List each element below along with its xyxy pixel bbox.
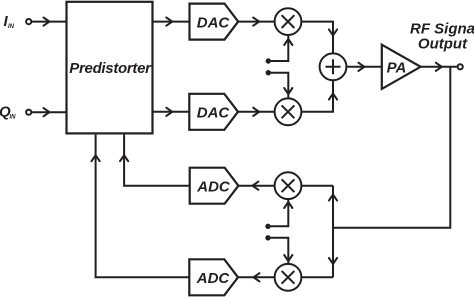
wire mixer2 to summer (301, 80, 337, 112)
wire mixer4 to ADC2 (238, 273, 275, 281)
mixer3 (feedback down-conversion top) (275, 172, 302, 199)
node Q_IN label (0, 104, 16, 121)
input terminal I_IN (26, 19, 31, 24)
svg-text:Output: Output (418, 35, 468, 52)
svg-text:PA: PA (387, 60, 407, 77)
predistorter block (67, 2, 153, 134)
wire I_IN to predistorter (32, 18, 67, 26)
wire mixer3 to ADC1 (238, 182, 274, 190)
input terminal Q_IN (26, 110, 31, 115)
svg-text:IN: IN (10, 115, 17, 121)
LO dot 4 (265, 235, 270, 240)
mixer4 (feedback down-conversion bottom) (275, 264, 302, 291)
LO dot 1 (266, 58, 271, 63)
wire splitter to feedback mixer3 (301, 185, 333, 187)
wire summer to PA (346, 63, 381, 71)
svg-text:ADC: ADC (196, 179, 231, 196)
wire DAC1 to mixer1 (238, 18, 274, 26)
PA amplifier (382, 45, 421, 89)
svg-text:Predistorter: Predistorter (69, 60, 152, 77)
RF Signal Output label (410, 20, 474, 52)
wire predistorter to DAC2 (153, 108, 190, 116)
wire ADC1 to predistorter (120, 135, 190, 186)
svg-text:IN: IN (8, 24, 15, 30)
LO dot 3 (265, 224, 270, 229)
svg-text:DAC: DAC (197, 14, 231, 31)
output terminal (458, 64, 463, 69)
wire splitter to feedback mixer4 (301, 276, 333, 278)
DAC1 converter (190, 4, 239, 40)
node I_IN label (4, 13, 15, 30)
svg-text:ADC: ADC (196, 270, 231, 287)
wire LO3 to mixer3 (268, 199, 292, 226)
wire LO1 to mixer1 (268, 35, 292, 61)
wire LO4 to mixer4 (268, 238, 292, 264)
wire LO2 to mixer2 (268, 73, 292, 99)
wire predistorter to DAC1 (153, 18, 190, 26)
wire Q_IN to predistorter (32, 108, 67, 116)
svg-text:DAC: DAC (197, 105, 231, 122)
wire PA to output terminal (421, 63, 458, 71)
wire mixer1 to summer (301, 22, 337, 54)
LO dot 2 (266, 70, 271, 75)
feedback tap wire (333, 67, 450, 228)
mixer2 (Q up-conversion) (275, 98, 302, 125)
wire DAC2 to mixer2 (238, 108, 275, 116)
summer (320, 53, 347, 80)
ADC1 converter (190, 168, 239, 204)
ADC2 converter (189, 259, 238, 295)
wire ADC2 to predistorter (92, 135, 190, 278)
mixer1 (I up-conversion) (275, 8, 302, 35)
feedback splitter wire (329, 186, 337, 278)
DAC2 converter (189, 94, 238, 130)
